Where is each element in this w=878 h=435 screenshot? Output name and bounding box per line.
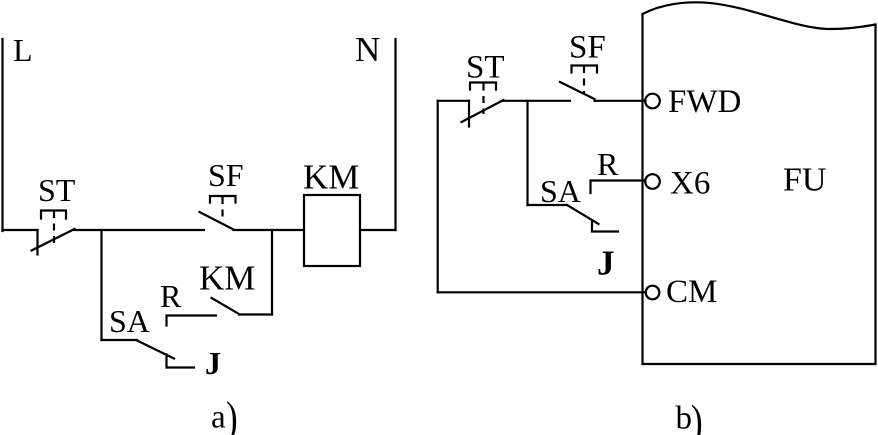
selector SA (a) common horizontal <box>102 339 138 341</box>
wire KM coil to N <box>360 229 396 231</box>
inverter FU box outline with wavy top <box>643 14 876 364</box>
pushbutton ST (b) blade <box>462 100 504 122</box>
inverter FU box wavy top edge <box>643 2 876 29</box>
svg-text:SA: SA <box>540 173 581 209</box>
wire rung middle segment ST to SF <box>75 229 205 231</box>
terminal R (a) bracket <box>167 316 217 326</box>
svg-text:b: b <box>676 401 693 435</box>
contactor coil KM box <box>304 195 360 266</box>
svg-text:): ) <box>226 392 238 435</box>
node B vertical drop to KM aux contact <box>271 230 273 315</box>
svg-text:SA: SA <box>109 303 150 339</box>
svg-text:KM: KM <box>199 259 255 298</box>
pushbutton ST (b) actuator dashed link <box>482 84 484 115</box>
wire to ST (b) <box>438 100 469 102</box>
selector SA (b) common horizontal <box>528 204 568 206</box>
wire L vertical (diagram a) <box>1 39 3 231</box>
terminal FWD circle <box>645 94 660 109</box>
terminal X6 circle <box>645 174 660 189</box>
terminal J (b) bracket <box>592 222 618 232</box>
pushbutton SF (a) actuator dashed link <box>221 197 223 219</box>
svg-text:FU: FU <box>783 162 826 199</box>
pushbutton ST (a) blade <box>32 229 75 251</box>
pushbutton ST (a) actuator dashed link <box>53 211 55 243</box>
pushbutton SF (b) cap bracket <box>572 66 598 73</box>
pushbutton SF (b) actuator dashed link <box>583 66 585 93</box>
wire left vertical (diagram b) <box>437 101 439 292</box>
selector SA (a) blade to J <box>137 341 174 359</box>
svg-text:J: J <box>597 244 615 283</box>
svg-text:SF: SF <box>208 157 244 193</box>
pushbutton ST (b) fixed contact tick <box>468 101 470 127</box>
contact KM auxiliary blade <box>212 298 240 314</box>
svg-text:N: N <box>355 30 380 69</box>
svg-text:SF: SF <box>569 30 606 66</box>
svg-text:): ) <box>691 395 703 435</box>
terminal R (b) bracket to X6 <box>591 181 646 194</box>
svg-text:ST: ST <box>38 172 76 208</box>
terminal J (a) bracket <box>167 355 195 368</box>
selector SA (b) blade to J <box>567 205 599 224</box>
wire CM horizontal <box>438 291 646 293</box>
svg-text:ST: ST <box>466 50 505 86</box>
pushbutton SF (a) cap bracket <box>210 196 236 203</box>
svg-text:X6: X6 <box>670 166 710 202</box>
pushbutton SF (b) blade <box>560 82 595 99</box>
wire N vertical <box>394 39 396 230</box>
wire KM aux to node B <box>239 313 272 315</box>
svg-text:R: R <box>160 278 182 314</box>
wire ST to SF (b) <box>503 100 570 102</box>
terminal CM circle <box>646 286 660 300</box>
wire rung left segment L to ST <box>3 229 38 231</box>
wire rung segment SF to KM coil <box>234 229 305 231</box>
node A vertical drop to SA (a) <box>100 230 102 340</box>
node C vertical drop to SA (b) <box>526 101 528 205</box>
svg-text:R: R <box>597 146 619 182</box>
pushbutton SF (a) blade <box>200 212 234 230</box>
svg-text:a: a <box>211 400 226 435</box>
pushbutton ST (a) fixed contact tick <box>36 230 38 255</box>
svg-text:J: J <box>205 345 221 381</box>
svg-text:L: L <box>13 32 33 68</box>
pushbutton ST (b) cap bracket <box>470 83 496 90</box>
svg-text:FWD: FWD <box>668 84 741 120</box>
wire SF to FWD terminal <box>595 100 646 102</box>
svg-text:KM: KM <box>303 158 359 197</box>
svg-text:CM: CM <box>666 274 717 310</box>
pushbutton ST (a) cap bracket <box>41 211 66 219</box>
